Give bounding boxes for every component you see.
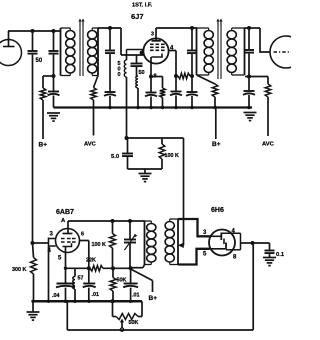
svg-text:3: 3 [151,32,154,38]
svg-text:57: 57 [78,276,84,282]
svg-text:6J7: 6J7 [131,12,144,21]
svg-text:6: 6 [81,232,84,238]
svg-text:6AB7: 6AB7 [56,209,74,216]
svg-text:5.0: 5.0 [111,154,119,160]
svg-text:0.1: 0.1 [276,252,285,258]
svg-text:AVC: AVC [84,142,97,148]
svg-text:1ST. I.F.: 1ST. I.F. [132,3,153,9]
svg-text:50: 50 [139,70,145,76]
svg-text:B+: B+ [212,141,221,148]
svg-text:AVC: AVC [262,142,275,148]
svg-text:.04: .04 [52,293,60,299]
svg-text:300 K: 300 K [12,267,26,273]
svg-text:100 K: 100 K [92,242,106,248]
svg-text:100 K: 100 K [165,153,179,159]
svg-text:.01: .01 [132,293,140,299]
svg-text:B+: B+ [149,295,158,302]
svg-text:6H6: 6H6 [211,207,224,214]
svg-text:.01: .01 [92,292,100,298]
svg-text:50K: 50K [129,320,139,326]
svg-text:22K: 22K [86,258,96,264]
svg-text:0: 0 [118,72,121,78]
svg-text:50: 50 [36,58,43,64]
svg-text:B+: B+ [39,142,48,149]
